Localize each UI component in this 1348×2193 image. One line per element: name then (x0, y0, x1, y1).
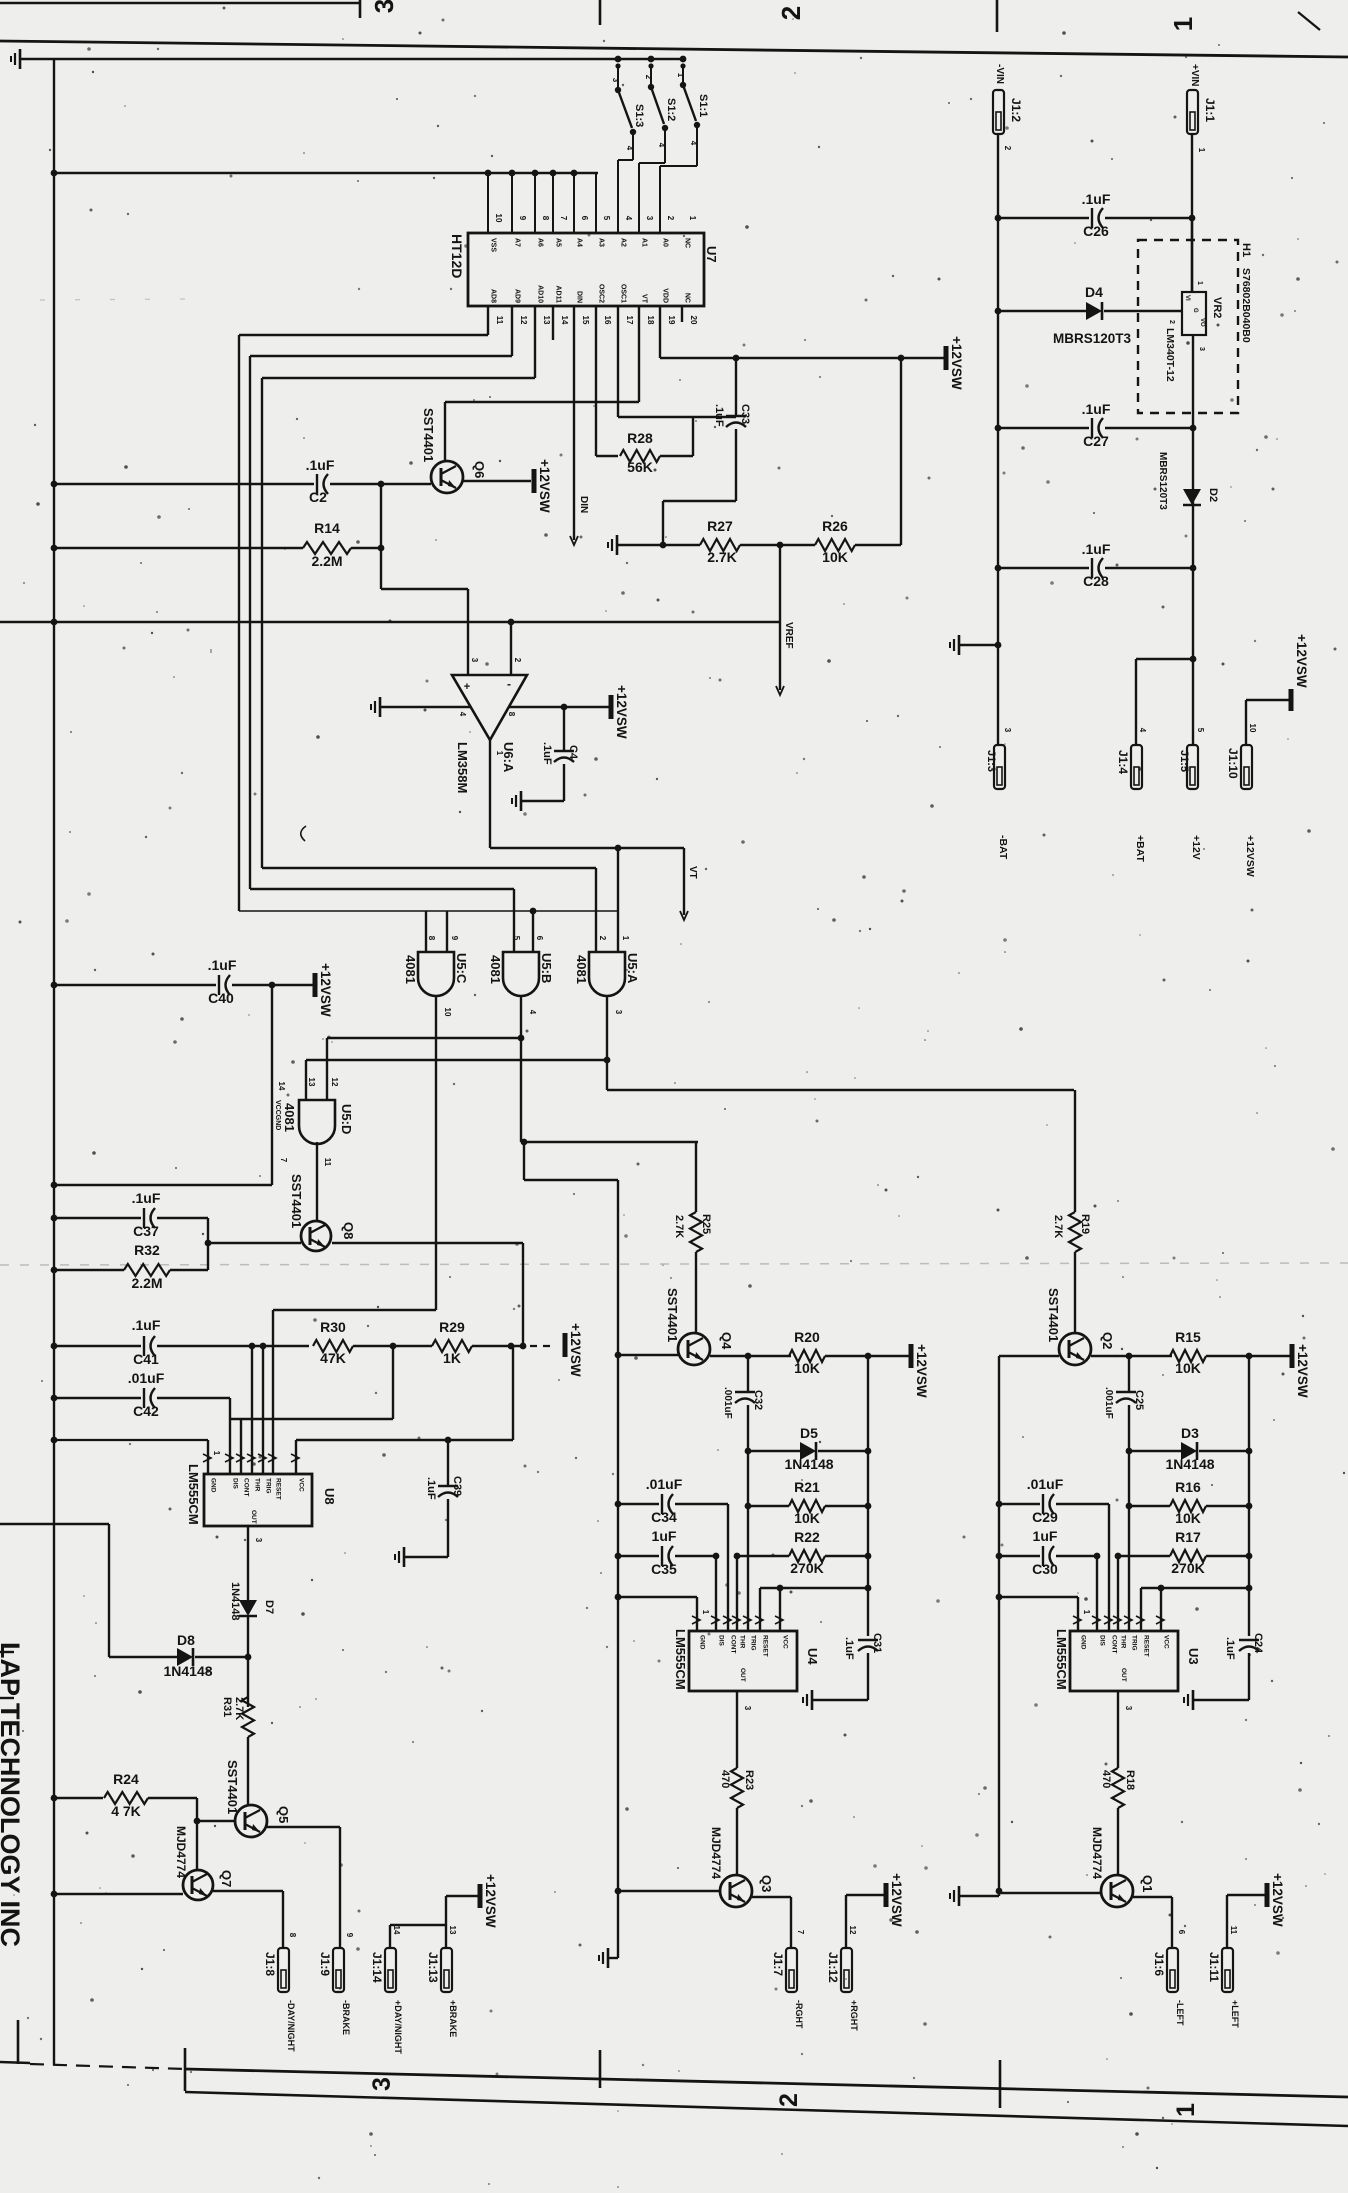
svg-text:R23: R23 (743, 1770, 755, 1790)
wire U8 out (248, 1526, 263, 1600)
IC U3 LM555CM (1054, 1616, 1201, 1691)
svg-text:VT: VT (687, 866, 698, 879)
wire Q3 emitter (752, 1897, 805, 1948)
ground R27 (608, 535, 617, 555)
svg-text:10K: 10K (822, 549, 848, 565)
connector J1:1 (1187, 90, 1217, 134)
svg-text:A5: A5 (555, 238, 562, 247)
svg-text:RESET: RESET (1143, 1635, 1150, 1657)
capacitor C4 (541, 707, 579, 801)
svg-text:-: - (507, 677, 511, 691)
svg-text:S76802B040B0: S76802B040B0 (1240, 268, 1252, 343)
wire C42 to R30 node (230, 1346, 393, 1419)
wire J1:10 up (1246, 700, 1289, 745)
svg-text:1: 1 (621, 936, 630, 941)
svg-text:GND: GND (1080, 1635, 1087, 1650)
wire R26 to VDD rail (855, 358, 901, 545)
svg-text:J1:4: J1:4 (1116, 750, 1130, 774)
wire Q1 emitter (1133, 1897, 1186, 1948)
capacitor C26 (998, 191, 1192, 239)
wire to Q4 base (524, 1142, 621, 1958)
svg-text:C29: C29 (1032, 1509, 1058, 1525)
wire J1:14 up (390, 1925, 446, 1948)
svg-text:C28: C28 (1083, 573, 1109, 589)
svg-text:3: 3 (1003, 728, 1012, 733)
svg-text:J1:7: J1:7 (771, 1952, 785, 1976)
svg-text:D8: D8 (177, 1632, 195, 1648)
wire U7 VDD rail (660, 306, 944, 361)
svg-text:.1uF: .1uF (1224, 1637, 1236, 1660)
svg-text:.1uF: .1uF (425, 1477, 437, 1500)
svg-text:Q6: Q6 (472, 461, 487, 478)
svg-text:1N4148: 1N4148 (1165, 1456, 1214, 1472)
wire J1:1 down (1189, 134, 1206, 292)
svg-text:3: 3 (611, 78, 620, 83)
ground mid-bottom right (950, 1886, 959, 1906)
svg-text:U5:B: U5:B (539, 953, 554, 983)
connector J1:7 (771, 1948, 797, 1992)
svg-text:20: 20 (689, 316, 698, 325)
svg-text:10K: 10K (794, 1360, 820, 1376)
wire U5A output (607, 995, 1074, 1090)
svg-text:5: 5 (1196, 728, 1205, 733)
svg-text:1: 1 (1172, 2103, 1200, 2117)
wire right column U4 (865, 1356, 872, 1636)
wire left to D8 (0, 1524, 177, 1657)
ground C4 (512, 791, 521, 811)
ground op-amp (371, 697, 380, 717)
svg-text:.1uF: .1uF (208, 957, 237, 973)
svg-text:8: 8 (288, 1933, 297, 1938)
ground C39 (395, 1547, 404, 1567)
svg-text:LM555CM: LM555CM (1054, 1629, 1069, 1690)
transistor Q2 (1046, 1288, 1115, 1365)
gate U5:C (403, 936, 469, 1017)
svg-text:R15: R15 (1175, 1329, 1201, 1345)
svg-text:1: 1 (688, 216, 697, 221)
svg-text:.1uF: .1uF (843, 1637, 855, 1660)
wire gnd to Q2 bus (959, 1895, 999, 1897)
transistor Q3 (709, 1827, 774, 1907)
svg-text:3: 3 (369, 0, 399, 13)
wire VSS bus (54, 170, 598, 177)
svg-text:+12VSW: +12VSW (537, 459, 552, 513)
svg-text:C41: C41 (133, 1351, 159, 1367)
svg-text:LAP TECHNOLOGY INC: LAP TECHNOLOGY INC (0, 1642, 25, 1947)
svg-text:OUT: OUT (250, 1510, 257, 1524)
svg-text:J1:10: J1:10 (1226, 748, 1240, 779)
IC U8 LM555CM (186, 1454, 337, 1526)
svg-text:.1uF: .1uF (306, 457, 335, 473)
resistor R23 (719, 1768, 755, 1808)
svg-text:TRIG: TRIG (265, 1478, 272, 1494)
svg-text:2: 2 (1003, 146, 1012, 151)
svg-text:NC: NC (684, 238, 691, 248)
wire U7 AD8 to bus (239, 306, 488, 335)
connector J1:4 (1116, 745, 1142, 789)
wire right column U3 (1246, 1356, 1253, 1636)
transistor Q5 (225, 1760, 291, 1837)
wire R24 to Q5 base (197, 1798, 235, 1821)
svg-text:GND: GND (699, 1635, 706, 1650)
power +12VSW R29 (565, 1323, 583, 1377)
svg-text:1K: 1K (443, 1350, 461, 1366)
connector J1:13 (426, 1948, 452, 1992)
svg-text:U5:D: U5:D (339, 1104, 354, 1134)
svg-text:S1:3: S1:3 (633, 104, 645, 127)
resistor R32 (54, 1242, 208, 1291)
resistor R30 (249, 1319, 353, 1366)
diode D5 (748, 1425, 868, 1472)
svg-text:3: 3 (614, 1010, 623, 1015)
svg-text:D7: D7 (263, 1600, 275, 1614)
wire long bus minus (0, 621, 779, 623)
transistor Q1 (1090, 1827, 1155, 1907)
svg-text:MBRS120T3: MBRS120T3 (1053, 331, 1132, 346)
resistor R16 (1129, 1479, 1249, 1526)
svg-text:J1:3: J1:3 (985, 750, 997, 772)
wire R15 right (1206, 1353, 1290, 1360)
label +VIN (1189, 64, 1200, 87)
svg-text:1: 1 (701, 1610, 710, 1615)
connector J1:2 (993, 90, 1023, 134)
svg-text:C25: C25 (1133, 1390, 1145, 1410)
svg-text:AD8: AD8 (490, 289, 497, 303)
ground C31 (803, 1690, 812, 1710)
svg-text:RESET: RESET (762, 1635, 769, 1657)
svg-text:TRIG: TRIG (1131, 1635, 1138, 1651)
switch S1:2 (639, 63, 677, 233)
svg-text:SST4401: SST4401 (225, 1760, 240, 1814)
svg-text:2: 2 (775, 2093, 803, 2107)
wire C2/R14 junction (378, 481, 385, 589)
wire op-amp pin8 (508, 704, 609, 711)
svg-text:8: 8 (541, 216, 550, 221)
svg-text:+DAY/NIGHT: +DAY/NIGHT (393, 2000, 403, 2054)
transistor Q7 (174, 1826, 234, 1900)
svg-text:1: 1 (1197, 148, 1206, 153)
wire left bus (51, 59, 58, 2065)
wire C24 gnd (1193, 1699, 1249, 1701)
capacitor C28 (998, 541, 1192, 589)
svg-text:H1: H1 (1240, 243, 1252, 257)
svg-text:+RGHT: +RGHT (849, 2000, 859, 2031)
svg-text:R14: R14 (314, 520, 340, 536)
connector J1:6 (1152, 1948, 1178, 1992)
svg-text:C2: C2 (309, 489, 327, 505)
connector J1:3 (985, 728, 1012, 789)
svg-text:14: 14 (392, 1926, 401, 1935)
power +12VSW J1:11 (1267, 1873, 1285, 1927)
resistor R18 (1100, 1768, 1136, 1808)
wire U5B output (521, 995, 698, 1145)
svg-text:Q4: Q4 (719, 1332, 734, 1350)
svg-text:+BRAKE: +BRAKE (448, 2000, 458, 2037)
svg-text:SST4401: SST4401 (1046, 1288, 1061, 1342)
svg-text:+12VSW: +12VSW (889, 1873, 904, 1927)
resistor R28 (620, 430, 660, 475)
svg-text:U5:C: U5:C (454, 953, 469, 984)
svg-text:C4: C4 (567, 745, 579, 760)
resistor R15 (1170, 1329, 1206, 1376)
label +12V (1190, 835, 1202, 860)
svg-text:2.7K: 2.7K (1052, 1215, 1064, 1238)
svg-text:10K: 10K (794, 1510, 820, 1526)
svg-text:.01uF: .01uF (1027, 1476, 1064, 1492)
svg-text:R20: R20 (794, 1329, 820, 1345)
wire U7 OSC2 to R28 (596, 306, 618, 456)
svg-text:2.2M: 2.2M (311, 553, 342, 569)
connector J1:14 (370, 1948, 396, 1992)
IC U7 HT12D (449, 173, 719, 325)
wire U7 AD10 to bus (262, 306, 535, 378)
wire U5D in12 (326, 1038, 328, 1100)
wire U3 CONT riser (1108, 1504, 1110, 1631)
resistor R20 (789, 1329, 825, 1376)
svg-text:9: 9 (345, 1933, 354, 1938)
wire C33 to R27 node (663, 501, 736, 545)
svg-text:C33: C33 (739, 404, 751, 424)
wire U5D in13 (305, 1060, 307, 1100)
ground J1 chain (950, 635, 959, 655)
svg-text:SST4401: SST4401 (289, 1174, 304, 1228)
svg-text:4081: 4081 (488, 955, 503, 984)
svg-text:+VIN: +VIN (1189, 64, 1200, 87)
svg-text:9: 9 (518, 216, 527, 221)
svg-text:4 7K: 4 7K (111, 1803, 141, 1819)
wire THR riser (251, 1346, 253, 1474)
svg-text:C35: C35 (651, 1561, 677, 1577)
svg-text:C37: C37 (133, 1223, 159, 1239)
resistor R22 (713, 1529, 868, 1576)
svg-text:R21: R21 (794, 1479, 820, 1495)
svg-text:J1:9: J1:9 (318, 1952, 332, 1976)
capacitor C40 (54, 957, 313, 1006)
svg-text:3: 3 (645, 216, 654, 221)
svg-text:DIS: DIS (718, 1635, 725, 1647)
svg-text:VI: VI (1184, 295, 1190, 301)
wire J1:12 up (846, 1895, 884, 1948)
wire U5D output (316, 1142, 318, 1221)
svg-text:4: 4 (624, 216, 633, 221)
wire minus input (508, 619, 515, 675)
svg-text:R16: R16 (1175, 1479, 1201, 1495)
diode D7 (229, 1582, 275, 1621)
svg-text:2: 2 (776, 6, 806, 20)
svg-text:J1:1: J1:1 (1203, 98, 1217, 122)
svg-text:8: 8 (427, 936, 436, 941)
svg-text:.01uF: .01uF (646, 1476, 683, 1492)
svg-text:AD9: AD9 (514, 289, 521, 303)
svg-text:U7: U7 (704, 246, 719, 263)
wire U7 VT down (445, 306, 639, 461)
wire R20 right (825, 1353, 909, 1360)
svg-text:VCCGND: VCCGND (274, 1100, 281, 1130)
wire U7 AD11 stub (552, 306, 554, 340)
ground C24 (1184, 1690, 1193, 1710)
svg-text:2.7K: 2.7K (707, 549, 737, 565)
svg-text:R24: R24 (113, 1771, 139, 1787)
wire U5C output (273, 995, 436, 1474)
svg-text:CONT: CONT (243, 1478, 250, 1496)
svg-text:1: 1 (1168, 17, 1198, 31)
label -RGHT (794, 2000, 804, 2029)
svg-text:6: 6 (1177, 1930, 1186, 1935)
svg-text:LM340T-12: LM340T-12 (1164, 328, 1176, 382)
svg-text:6: 6 (580, 216, 589, 221)
svg-text:1uF: 1uF (1033, 1528, 1058, 1544)
wire TRIG riser (262, 1346, 264, 1474)
svg-text:Q3: Q3 (759, 1875, 774, 1892)
svg-text:C31: C31 (871, 1633, 883, 1653)
svg-text:2: 2 (1168, 320, 1175, 324)
svg-text:1: 1 (212, 1451, 221, 1456)
label -LEFT (1175, 2000, 1185, 2026)
svg-text:56K: 56K (627, 459, 653, 475)
svg-text:MJD4774: MJD4774 (709, 1827, 723, 1879)
wire U3 THR riser (1117, 1556, 1119, 1631)
svg-text:3: 3 (368, 2077, 396, 2091)
svg-text:VO: VO (1199, 318, 1205, 327)
transistor Q6 (421, 408, 487, 493)
svg-text:14: 14 (560, 316, 569, 325)
svg-text:17: 17 (625, 316, 634, 325)
wire VR2 bottom (1190, 335, 1197, 745)
svg-text:15: 15 (581, 316, 590, 325)
svg-text:U4: U4 (805, 1648, 820, 1665)
svg-text:+BAT: +BAT (1134, 835, 1146, 863)
svg-text:270K: 270K (790, 1560, 823, 1576)
resistor R21 (748, 1479, 868, 1526)
svg-text:8: 8 (507, 712, 516, 717)
resistor R27 (700, 518, 740, 565)
svg-text:1: 1 (676, 73, 685, 78)
svg-text:A3: A3 (598, 238, 605, 247)
wire U4 GND (618, 1597, 710, 1631)
power +12VSW VDD rail (946, 336, 964, 390)
capacitor C41 (54, 1317, 309, 1367)
wire J1:11 up (1227, 1895, 1265, 1948)
op-amp U6:A (452, 658, 527, 794)
svg-text:CONT: CONT (730, 1635, 737, 1653)
svg-text:DIN: DIN (578, 496, 589, 513)
connector J1:5t (1178, 728, 1205, 789)
svg-text:9: 9 (450, 936, 459, 941)
svg-text:Q2: Q2 (1100, 1332, 1115, 1349)
wire to op-amp plus (381, 589, 468, 675)
svg-text:+12VSW: +12VSW (949, 336, 964, 390)
wire R30 to R29 (353, 1343, 432, 1350)
label +BAT (1134, 835, 1146, 863)
diode D8 (163, 1632, 212, 1679)
svg-text:C30: C30 (1032, 1561, 1058, 1577)
wire gate bus L3 (239, 335, 618, 914)
wire Q8 base (208, 1242, 301, 1244)
label +RGHT (849, 2000, 859, 2031)
svg-text:3: 3 (743, 1706, 752, 1711)
wire D8 to node (195, 1656, 248, 1658)
svg-text:R31: R31 (221, 1697, 233, 1717)
power +12VSW Q6 (534, 459, 552, 513)
wire Q8 emitter (332, 1243, 523, 1346)
svg-text:.1uF: .1uF (1082, 191, 1111, 207)
svg-text:10K: 10K (1175, 1510, 1201, 1526)
svg-text:A4: A4 (576, 238, 583, 247)
svg-text:3: 3 (1124, 1706, 1133, 1711)
wire Q7 emitter (213, 1891, 297, 1948)
svg-text:C24: C24 (1252, 1633, 1264, 1654)
svg-text:10: 10 (1248, 724, 1257, 733)
svg-text:+12VSW: +12VSW (1244, 835, 1256, 877)
svg-text:4081: 4081 (403, 955, 418, 984)
svg-text:2: 2 (598, 936, 607, 941)
wire Q5 emitter (267, 1827, 354, 1948)
wire R28 to C33 node (618, 417, 736, 456)
svg-text:7: 7 (796, 1930, 805, 1935)
wire gate bus L1 (262, 378, 596, 952)
svg-text:3: 3 (1198, 347, 1205, 351)
svg-text:U3: U3 (1186, 1648, 1201, 1665)
capacitor C27 (998, 401, 1192, 449)
svg-text:+: + (464, 681, 470, 693)
svg-text:470: 470 (1100, 1770, 1112, 1788)
wire U3 DIS riser (1096, 1556, 1098, 1631)
svg-text:13: 13 (307, 1078, 316, 1087)
wire VR2 top (1191, 218, 1193, 292)
svg-text:NC: NC (684, 293, 691, 303)
capacitor C2 (54, 457, 381, 505)
svg-text:18: 18 (646, 316, 655, 325)
svg-text:-BRAKE: -BRAKE (341, 2000, 351, 2035)
capacitor C34 (618, 1476, 728, 1525)
power +12VSW J1:10 (1291, 634, 1309, 711)
power +12VSW op-amp (611, 685, 629, 739)
resistor R31 (221, 1697, 254, 1737)
svg-text:-RGHT: -RGHT (794, 2000, 804, 2029)
wire U5C input stubs (426, 911, 447, 952)
wire U7 NC stub (681, 306, 683, 322)
power +12VSW R15 (1292, 1344, 1310, 1398)
svg-text:D2: D2 (1207, 488, 1219, 502)
wire U3 GND (999, 1597, 1091, 1631)
wire U5D input from U5B (327, 1035, 524, 1042)
node VT arrow (680, 848, 698, 920)
resistor R14 (54, 520, 381, 569)
svg-text:R26: R26 (822, 518, 848, 534)
svg-text:U5:A: U5:A (625, 953, 640, 984)
svg-text:MBRS120T3: MBRS120T3 (1157, 452, 1168, 510)
svg-text:270K: 270K (1171, 1560, 1204, 1576)
wire gnd stub (959, 644, 998, 646)
wire U5A input stub (617, 848, 619, 952)
svg-text:4081: 4081 (282, 1103, 297, 1132)
svg-text:1: 1 (1196, 281, 1203, 285)
svg-text:R30: R30 (320, 1319, 346, 1335)
wire U3 out (1118, 1691, 1133, 1768)
wire VCC riser U8 (296, 1346, 513, 1474)
wire op-amp output (490, 740, 684, 851)
svg-text:.001uF: .001uF (722, 1387, 733, 1419)
connector J1:10 (1226, 745, 1252, 789)
svg-text:HT12D: HT12D (449, 234, 465, 278)
svg-text:+12VSW: +12VSW (568, 1323, 583, 1377)
gate U5:B (488, 936, 554, 1015)
svg-text:R17: R17 (1175, 1529, 1201, 1545)
svg-text:12: 12 (519, 316, 528, 325)
diode D2 (1157, 452, 1219, 510)
wire Q1 base (999, 1892, 1101, 1894)
svg-text:C32: C32 (752, 1390, 764, 1410)
